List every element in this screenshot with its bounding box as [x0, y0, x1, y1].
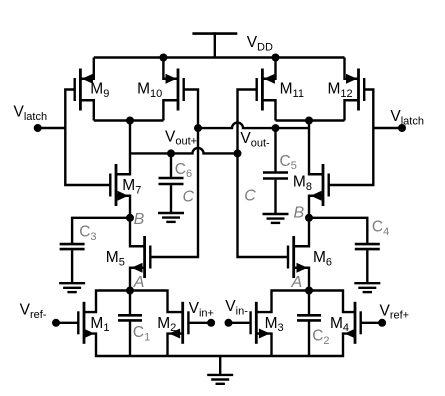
label M9: [90, 81, 109, 100]
wire: Vref- lead: [56, 322, 79, 324]
label Vin-: [225, 298, 248, 317]
wire: Vlatch left bus (M9 gate to M7 gate): [65, 90, 110, 186]
wire: node A to C2: [308, 291, 310, 315]
label node A left: [133, 274, 145, 291]
label VDD: [247, 34, 273, 53]
wire: left A rail with M1/M2 drain drops: [84, 291, 183, 313]
transistor M11 (PMOS): [257, 58, 276, 121]
label M1: [90, 315, 109, 334]
capacitor C5: [263, 173, 288, 179]
wire: node B to C4: [309, 218, 367, 243]
wire: Vlatch right lead: [373, 127, 402, 129]
wire: M10 gate to left cross-couple line: [150, 90, 198, 258]
ground under C6: [158, 213, 184, 222]
label node C left: [183, 189, 195, 206]
wire: M3 source drop: [256, 334, 271, 356]
wire: C1 to ground rail: [129, 322, 131, 357]
node: Vout+ joins right cross-couple line: [234, 149, 242, 157]
wire: Vlatch left lead: [38, 127, 66, 129]
capacitor C3: [60, 244, 85, 249]
label Vlatch left: [14, 104, 48, 123]
transistor M12 (PMOS): [345, 58, 365, 121]
node: M11 source junction: [272, 54, 280, 62]
label C5: [280, 153, 297, 172]
label M12: [328, 81, 353, 100]
label C2: [312, 327, 329, 346]
wire: Vout+ horizontal with hop: [130, 148, 238, 154]
node: left drain junction: [126, 117, 134, 125]
capacitor C6: [159, 178, 184, 184]
svg-text:B: B: [134, 211, 145, 228]
wire: M9-M10 drain bus: [94, 119, 164, 121]
ground under C4: [354, 283, 380, 292]
label node B left: [134, 211, 145, 228]
label node B right: [294, 205, 305, 222]
label Vout-: [240, 130, 270, 149]
label M5: [106, 249, 125, 268]
wire: node B to C3: [72, 218, 130, 243]
wire: Vref+ lead: [361, 322, 382, 324]
node: Vout- joins left cross-couple line: [194, 124, 202, 132]
wire: Vlatch right bus (M12 gate to M8 gate): [329, 90, 374, 186]
transistor M1 (NMOS): [78, 302, 94, 344]
transistor M2 (NMOS): [169, 302, 188, 344]
wire: Vin+ lead: [188, 322, 211, 324]
label M4: [330, 315, 349, 334]
wire: node A to C1: [129, 291, 131, 315]
label Vref-: [20, 302, 47, 321]
label C1: [133, 324, 150, 343]
wire: M2 source drop: [168, 334, 183, 356]
label Vout+: [165, 128, 197, 147]
wire: Vout+ to C6: [170, 153, 172, 177]
transistor M5 (NMOS): [130, 236, 150, 291]
svg-text:C: C: [183, 189, 195, 206]
transistor M8 (NMOS): [294, 121, 329, 247]
terminal Vin-: [225, 319, 233, 327]
node: C6 tap on Vout+: [167, 149, 175, 157]
node A left: [126, 287, 134, 295]
wire: Vin- lead: [229, 322, 251, 324]
wire: Vout- to C5: [274, 128, 276, 171]
wire: C5 to ground: [274, 180, 276, 214]
svg-text:A: A: [291, 274, 303, 291]
capacitor C4: [355, 244, 380, 249]
label M7: [122, 177, 141, 196]
svg-text:B: B: [294, 205, 305, 222]
VDD supply symbol: [192, 32, 237, 57]
svg-text:C: C: [244, 188, 256, 205]
label M11: [280, 81, 304, 100]
label M2: [157, 315, 176, 334]
wire: C3 to ground: [71, 250, 73, 283]
transistor M4 (NMOS): [345, 302, 361, 344]
label Vref+: [380, 302, 410, 321]
capacitor C2: [297, 315, 321, 320]
node B left: [126, 214, 134, 222]
label node A right: [291, 274, 303, 291]
wire: M11-M12 drain bus: [276, 119, 345, 121]
node A right: [305, 287, 313, 295]
label Vlatch right: [390, 108, 424, 127]
label Vin+: [189, 300, 214, 319]
node: right drain junction: [305, 117, 313, 125]
terminal Vref+: [378, 319, 386, 327]
wire: M11 gate to right cross-couple line: [238, 90, 289, 258]
terminal Vin+: [207, 319, 215, 327]
label M8: [293, 174, 312, 193]
ground under C3: [59, 283, 85, 292]
transistor M7 (NMOS): [110, 121, 144, 247]
node: M10 source junction: [159, 54, 167, 62]
label C6: [175, 161, 192, 180]
ground main: [207, 375, 233, 384]
label M10: [137, 81, 162, 100]
node: C5 tap on Vout-: [272, 124, 280, 132]
wire: C4 to ground: [366, 250, 368, 283]
label node C right: [244, 188, 256, 205]
transistor M6 (NMOS): [288, 236, 309, 291]
terminal Vlatch right: [398, 124, 406, 132]
wire: C6 to ground: [170, 185, 172, 213]
wire: C2 to ground rail: [308, 322, 310, 357]
node B right: [305, 214, 313, 222]
wire: VDD rail: [94, 56, 345, 58]
capacitor C1: [118, 315, 142, 320]
ground under C5: [263, 214, 289, 223]
transistor M10 (PMOS): [163, 58, 183, 121]
terminal Vlatch left: [34, 124, 42, 132]
label C4: [372, 218, 389, 237]
label M3: [265, 315, 284, 334]
wire: Vout- horizontal with hop: [198, 123, 309, 129]
wire: rail to main ground: [219, 356, 221, 375]
svg-text:A: A: [133, 274, 145, 291]
label M6: [313, 249, 332, 268]
wire: bottom ground rail with M1/M4 source drops: [84, 334, 355, 356]
label C3: [79, 224, 96, 243]
transistor M3 (NMOS): [251, 302, 270, 344]
transistor M9 (PMOS): [75, 58, 94, 121]
terminal Vref-: [52, 319, 60, 327]
wire: right A rail with M3/M4 drain drops: [256, 291, 355, 313]
